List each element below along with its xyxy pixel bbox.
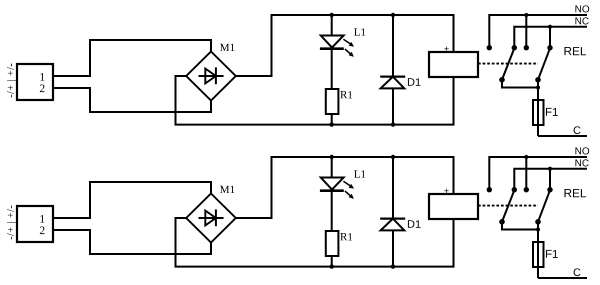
wire: LED L1 cathode to resistor R1 (top circuit) <box>331 49 333 89</box>
wire: stub from NO rail to NO contact 2 (top circuit) <box>525 15 527 48</box>
wire: stub from NC rail to NC contact 2 (bottom circuit) <box>549 169 551 190</box>
svg-text:NO: NO <box>575 4 590 15</box>
contact dot NC 2 (bottom circuit) <box>547 187 552 192</box>
svg-text:D1: D1 <box>407 77 421 89</box>
wire: C terminal line (bottom circuit) <box>538 277 587 279</box>
contact dot NO 2 (top circuit) <box>524 45 529 50</box>
svg-text:NC: NC <box>575 16 589 27</box>
wire: pole 2 down through fuse to C line (top circuit) <box>537 80 539 136</box>
pole dot 2 (bottom circuit) <box>535 219 541 225</box>
relay switch arm pole 2 (top circuit) <box>538 48 550 80</box>
relay switch arm pole 1 (top circuit) <box>502 48 514 80</box>
contact dot NC 1 (bottom circuit) <box>512 187 517 192</box>
bottom circuit group (identical, shifted down) <box>6 146 590 279</box>
wire: top rail down to LED L1 anode (top circuit) <box>331 15 333 36</box>
node: D1 junction on bottom rail (bottom circuit) <box>391 264 395 268</box>
wire: top rail down to diode D1 cathode (top circuit) <box>392 15 394 77</box>
node: D1 junction on bottom rail (top circuit) <box>391 122 395 126</box>
diode D1 triangle (bottom circuit) <box>381 219 405 231</box>
svg-text:2: 2 <box>39 83 45 95</box>
diode D1 triangle (top circuit) <box>381 77 405 89</box>
wire: terminal 1 to bridge M1 top (AC input) (top circuit) <box>53 40 211 76</box>
node: junction of NO stub on NO rail (top circuit) <box>524 13 528 17</box>
wire: top rail down to diode D1 cathode (bottom circuit) <box>392 157 394 219</box>
wire: link joining both poles (bottom circuit) <box>502 222 538 230</box>
svg-text:C: C <box>573 267 581 279</box>
bridge rectifier M1 diamond body (bottom circuit) <box>186 194 236 243</box>
svg-text:REL: REL <box>563 44 586 58</box>
pole dot 2 (top circuit) <box>535 77 541 83</box>
wire: NO rail with drop to NO contact 1 (top circuit) <box>489 15 587 48</box>
wire: top rail down to LED L1 anode (bottom circuit) <box>331 157 333 178</box>
wire: NC rail with drop to NC contact 1 (top circuit) <box>514 27 587 48</box>
node: junction of NC stub on NC rail (bottom circuit) <box>548 167 552 171</box>
svg-text:1: 1 <box>39 214 45 226</box>
wire: diode D1 anode to bottom rail (bottom circuit) <box>392 230 394 266</box>
LED L1 light emission arrow 2 (top circuit) <box>345 49 354 57</box>
dashed mechanical linkage from coil to contacts (bottom circuit) <box>478 205 538 207</box>
diode D1 cathode bar (bottom circuit) <box>380 218 405 220</box>
node: pole link junction (bottom circuit) <box>536 228 540 232</box>
resistor R1 (bottom circuit) <box>326 231 339 256</box>
svg-text:L1: L1 <box>354 169 366 181</box>
diode symbol inside bridge M1 (bottom circuit) <box>199 209 224 226</box>
connector J1 (bottom circuit): input terminal block <box>17 206 53 242</box>
wire: pole 2 down through fuse to C line (bottom circuit) <box>537 222 539 278</box>
svg-text:-/+ | +/-: -/+ | +/- <box>6 63 17 98</box>
svg-text:D1: D1 <box>407 219 421 231</box>
LED L1 triangle (top circuit) <box>321 36 344 48</box>
contact dot NC 1 (top circuit) <box>512 45 517 50</box>
diode D1 cathode bar (top circuit) <box>380 75 405 77</box>
node: pole link junction (top circuit) <box>536 86 540 90</box>
contact dot NO 1 (top circuit) <box>487 45 492 50</box>
wire: terminal 1 to bridge M1 top (AC input) (bottom circuit) <box>53 182 211 218</box>
wire: resistor R1 to bottom rail (bottom circuit) <box>331 256 333 267</box>
node: R1 junction on bottom rail (bottom circuit) <box>330 264 334 268</box>
LED L1 light emission arrow 1 (top circuit) <box>343 39 354 46</box>
svg-text:M1: M1 <box>220 42 235 54</box>
svg-text:+: + <box>444 44 449 54</box>
pole dot 1 (top circuit) <box>499 77 505 83</box>
wire: terminal 2 to bridge M1 bottom (AC input) (bottom circuit) <box>53 230 211 254</box>
bridge rectifier M1 diamond body (top circuit) <box>186 52 236 101</box>
wire: bridge M1 + output to top DC rail and relay coil (top circuit) <box>236 15 454 76</box>
svg-text:M1: M1 <box>220 184 235 196</box>
relay coil K1 body (top circuit) <box>429 52 478 77</box>
relay coil K1 body (bottom circuit) <box>429 194 478 219</box>
wire: NC rail with drop to NC contact 1 (bottom circuit) <box>514 169 587 190</box>
node: R1 junction on bottom rail (top circuit) <box>330 122 334 126</box>
svg-text:F1: F1 <box>545 249 558 261</box>
svg-text:F1: F1 <box>545 107 558 119</box>
wire: bridge M1 - output, bottom DC rail, relay coil return (bottom circuit) <box>176 218 454 267</box>
svg-text:1: 1 <box>39 72 45 84</box>
svg-text:R1: R1 <box>340 231 353 243</box>
wire: LED L1 cathode to resistor R1 (bottom circuit) <box>331 191 333 231</box>
svg-text:NO: NO <box>575 146 590 157</box>
node: LED branch junction on top rail (top circuit) <box>330 13 334 17</box>
relay switch arm pole 1 (bottom circuit) <box>502 190 514 222</box>
fuse F1 (bottom circuit) <box>533 242 544 267</box>
node: D1 branch junction on top rail (top circuit) <box>391 13 395 17</box>
wire: resistor R1 to bottom rail (top circuit) <box>331 114 333 125</box>
svg-text:+: + <box>444 186 449 196</box>
LED L1 cathode bar (top circuit) <box>320 47 344 50</box>
fuse F1 (top circuit) <box>533 100 544 125</box>
wire: stub from NC rail to NC contact 2 (top circuit) <box>549 27 551 48</box>
node: junction of NC stub on NC rail (top circuit) <box>548 25 552 29</box>
svg-text:-/+ | +/-: -/+ | +/- <box>6 205 17 240</box>
diode symbol inside bridge M1 (top circuit) <box>199 67 224 84</box>
svg-text:L1: L1 <box>354 27 366 39</box>
LED L1 cathode bar (bottom circuit) <box>320 189 344 192</box>
wire: NO rail with drop to NO contact 1 (bottom circuit) <box>489 157 587 190</box>
relay switch arm pole 2 (bottom circuit) <box>538 190 550 222</box>
LED L1 light emission arrow 2 (bottom circuit) <box>345 191 354 199</box>
node: D1 branch junction on top rail (bottom circuit) <box>391 155 395 159</box>
connector J1 (top circuit): input terminal block <box>17 64 53 100</box>
node: LED branch junction on top rail (bottom circuit) <box>330 155 334 159</box>
contact dot NO 1 (bottom circuit) <box>487 187 492 192</box>
wire: C terminal line (top circuit) <box>538 135 587 137</box>
contact dot NO 2 (bottom circuit) <box>524 187 529 192</box>
wire: terminal 2 to bridge M1 bottom (AC input) (top circuit) <box>53 88 211 112</box>
svg-text:NC: NC <box>575 158 589 169</box>
resistor R1 (top circuit) <box>326 89 339 114</box>
wire: diode D1 anode to bottom rail (top circuit) <box>392 88 394 124</box>
wire: link joining both poles (top circuit) <box>502 80 538 88</box>
wire: stub from NO rail to NO contact 2 (bottom circuit) <box>525 157 527 190</box>
svg-text:2: 2 <box>39 225 45 237</box>
LED L1 light emission arrow 1 (bottom circuit) <box>343 181 354 188</box>
node: junction of NO stub on NO rail (bottom circuit) <box>524 155 528 159</box>
wire: bridge M1 - output, bottom DC rail, relay coil return (top circuit) <box>176 76 454 125</box>
svg-text:R1: R1 <box>340 89 353 101</box>
wire: bridge M1 + output to top DC rail and relay coil (bottom circuit) <box>236 157 454 218</box>
contact dot NC 2 (top circuit) <box>547 45 552 50</box>
pole dot 1 (bottom circuit) <box>499 219 505 225</box>
svg-text:REL: REL <box>563 186 586 200</box>
dashed mechanical linkage from coil to contacts (top circuit) <box>478 63 538 65</box>
svg-text:C: C <box>573 125 581 137</box>
LED L1 triangle (bottom circuit) <box>321 178 344 190</box>
